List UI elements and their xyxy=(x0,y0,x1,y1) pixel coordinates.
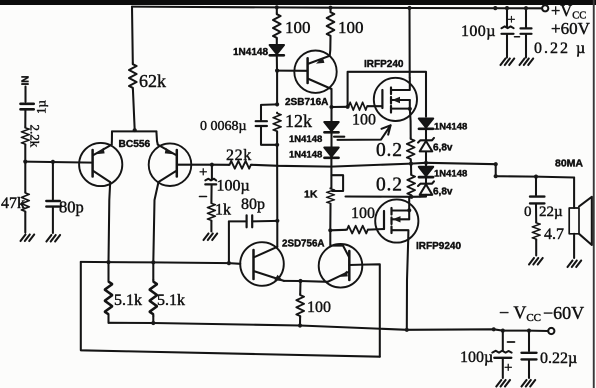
wire base rail (feedback to drivers) xyxy=(81,262,241,264)
capacitor C6 100u (top right) xyxy=(502,26,514,28)
node gate tap upper xyxy=(329,105,333,109)
svg-text:0.22 µ: 0.22 µ xyxy=(534,40,587,57)
diode D5 1N4148 (clamp bottom) xyxy=(419,167,433,177)
node feedback xyxy=(210,163,214,167)
svg-text:100: 100 xyxy=(351,205,375,222)
node xyxy=(409,195,413,199)
svg-text:12k: 12k xyxy=(285,111,312,131)
wire gate lead left xyxy=(330,229,346,232)
capacitor C10 0.22u (bottom) xyxy=(522,353,537,360)
svg-text:5.1k: 5.1k xyxy=(114,292,142,309)
transistor Q5 (driver) xyxy=(319,244,363,288)
wire to gate resistor xyxy=(332,106,348,108)
ground xyxy=(529,258,543,265)
resistor R 100 (left) xyxy=(273,13,281,39)
capacitor C4 0.0068u xyxy=(256,121,267,126)
trimmer box xyxy=(331,175,343,191)
wire 0.22u lead xyxy=(528,331,530,351)
node on rail xyxy=(493,6,497,10)
wire xyxy=(410,165,412,174)
wire xyxy=(506,35,508,58)
wire gate clamp riser xyxy=(348,72,426,117)
node rail R100#1 xyxy=(275,5,279,9)
wire xyxy=(276,71,278,105)
svg-text:62k: 62k xyxy=(139,71,166,91)
svg-text:100: 100 xyxy=(338,18,364,37)
node xyxy=(527,329,531,333)
node output rail clamp xyxy=(424,161,428,165)
wire +Vcc top rail xyxy=(132,7,542,9)
svg-text:100µ: 100µ xyxy=(460,349,493,366)
svg-text:1N4148: 1N4148 xyxy=(289,134,322,145)
node base 2SB716A xyxy=(275,69,279,73)
node xyxy=(106,260,110,264)
ground xyxy=(46,235,60,242)
diode D1 1N4148 xyxy=(270,45,284,55)
capacitor C9 100u (bottom) xyxy=(492,351,511,353)
wire 100u top lead xyxy=(506,8,508,26)
wire base xyxy=(277,70,308,72)
wire xyxy=(299,281,301,294)
svg-text:1N4148: 1N4148 xyxy=(434,122,467,133)
node xyxy=(492,327,496,331)
wire 100u lead xyxy=(502,331,504,351)
resistor R gate 100 (bottom) xyxy=(346,226,369,234)
capacitor C3 100u (feedback) xyxy=(205,179,216,181)
node xyxy=(275,143,279,147)
node xyxy=(151,321,155,325)
wire xyxy=(425,178,427,183)
wire xyxy=(329,8,331,11)
label minus xyxy=(515,36,520,38)
wire Q5 base drop xyxy=(363,264,380,356)
node xyxy=(505,6,509,10)
node jog xyxy=(494,174,498,178)
svg-text:100µ: 100µ xyxy=(461,23,496,40)
capacitor C2 80p (input) xyxy=(46,201,60,207)
wire xyxy=(276,7,278,13)
wire Q1 collector drop xyxy=(109,182,111,262)
label minus xyxy=(200,196,207,198)
svg-text:2SD756A: 2SD756A xyxy=(282,239,324,250)
node xyxy=(227,261,231,265)
wire xyxy=(107,262,109,323)
wire xyxy=(329,204,331,230)
svg-text:1K: 1K xyxy=(304,189,318,201)
resistor R 100 (right) xyxy=(327,11,335,37)
wire base Q1 xyxy=(25,162,92,163)
stub xyxy=(334,136,344,138)
svg-text:80p: 80p xyxy=(59,198,84,217)
svg-text:0: 0 xyxy=(524,204,532,220)
svg-text:0 0068µ: 0 0068µ xyxy=(200,119,247,134)
resistor 1k xyxy=(208,203,216,222)
wire zobel lead xyxy=(535,177,537,195)
ground xyxy=(496,380,510,387)
wire -Vcc rail xyxy=(300,326,548,332)
svg-text:6,8v: 6,8v xyxy=(433,187,453,198)
node xyxy=(494,162,498,166)
wire VAS column xyxy=(276,145,278,247)
svg-text:+: + xyxy=(504,360,512,376)
capacitor C7 0.22u (top right) xyxy=(521,28,532,33)
wire xyxy=(573,234,575,258)
svg-text:+: + xyxy=(508,13,516,28)
wire 0.0068u top lead xyxy=(261,104,277,119)
wire gate lead xyxy=(369,228,384,231)
wire xyxy=(425,129,427,141)
svg-text:0.2: 0.2 xyxy=(376,140,403,161)
svg-text:100: 100 xyxy=(307,299,331,316)
wire 0.22u top lead xyxy=(525,8,527,27)
node input xyxy=(23,160,27,164)
node xyxy=(275,102,279,106)
mosfet U2 IRFP9240 xyxy=(375,197,418,243)
resistor 47k xyxy=(22,192,30,212)
svg-text:1N4148: 1N4148 xyxy=(233,47,268,58)
node xyxy=(524,6,528,10)
wire Q2 emitter lead xyxy=(156,131,157,144)
svg-text:2SB716A: 2SB716A xyxy=(285,97,328,108)
wire xyxy=(425,163,427,167)
resistor 22k xyxy=(229,161,252,169)
node rail R100#2 xyxy=(328,6,332,10)
ground xyxy=(501,59,515,66)
wire xyxy=(528,361,530,379)
node xyxy=(407,6,411,10)
svg-text:1k: 1k xyxy=(215,202,231,219)
wire xyxy=(52,208,54,233)
wire xyxy=(502,359,504,378)
wire xyxy=(24,145,26,162)
resistor R gate 100 (top) xyxy=(348,102,368,110)
svg-text:4.7: 4.7 xyxy=(544,226,564,243)
ground xyxy=(568,261,582,268)
label minus xyxy=(508,341,515,343)
scan right edge xyxy=(593,0,595,388)
svg-text:47k: 47k xyxy=(1,195,25,212)
ground xyxy=(520,59,534,66)
wire xyxy=(210,185,212,202)
zener Z1 6,8v xyxy=(418,138,434,152)
wire speaker lead xyxy=(573,178,575,209)
wire 80p input tap xyxy=(52,162,54,200)
wire gate lead xyxy=(368,105,382,107)
wire source node horizontal xyxy=(346,195,421,197)
svg-text:−60V: −60V xyxy=(543,303,584,323)
wire xyxy=(276,39,278,45)
svg-text:100µ: 100µ xyxy=(217,178,250,195)
resistor 4.7 xyxy=(532,222,540,240)
wire IRFP9240 drain xyxy=(407,240,408,330)
wire bias chain top xyxy=(330,89,332,122)
svg-text:1N4148: 1N4148 xyxy=(434,169,467,180)
wire xyxy=(535,240,537,256)
transistor Q3 2SB716A xyxy=(294,50,336,92)
scan top bar xyxy=(0,0,596,5)
svg-text:80p: 80p xyxy=(241,196,265,213)
wire to Q5 collector xyxy=(330,230,349,257)
svg-text:6,8v: 6,8v xyxy=(433,143,453,154)
wire xyxy=(425,152,427,163)
node zobel tap xyxy=(534,175,538,179)
node output upper xyxy=(409,162,413,166)
svg-text:BC556: BC556 xyxy=(119,139,151,150)
annotation arrow xyxy=(338,125,391,140)
capacitor C8 0.22u (zobel) xyxy=(530,197,544,204)
transistor Q2 BC556 (right) xyxy=(149,143,192,186)
node gate tap lower xyxy=(328,228,332,232)
svg-text:100: 100 xyxy=(352,112,376,129)
resistor R 0.2 (upper) xyxy=(407,138,415,160)
resistor 2.2k xyxy=(22,127,30,145)
node xyxy=(298,323,302,327)
wire 100u lead xyxy=(211,165,213,179)
transistor Q4 2SD756A xyxy=(240,242,284,286)
svg-text:IN: IN xyxy=(21,76,32,86)
wire Q2 collector drop xyxy=(153,182,158,262)
wire zener to source node xyxy=(420,195,426,197)
wire Q1 emitter lead xyxy=(111,131,113,144)
wire feedback loop xyxy=(81,262,380,357)
node xyxy=(346,105,350,109)
ground xyxy=(522,380,536,387)
resistor 100 (emitter) xyxy=(296,294,304,317)
wire Q2 base to feedback node xyxy=(177,164,212,166)
wire 5.1k bottom rail xyxy=(109,323,301,326)
wire 47k top lead xyxy=(24,162,26,192)
wire output rail right xyxy=(426,163,574,178)
resistor 12k xyxy=(273,112,281,132)
diode D4 1N4148 (clamp top) xyxy=(419,119,433,129)
wire bias chain to 1K xyxy=(330,158,332,189)
svg-text:IRFP9240: IRFP9240 xyxy=(416,241,461,252)
svg-text:1µ: 1µ xyxy=(34,100,49,115)
wire xyxy=(210,221,212,231)
wire xyxy=(330,132,332,148)
wire xyxy=(152,262,154,323)
resistor 5.1k (right) xyxy=(150,280,158,316)
wire 62k top lead xyxy=(131,7,134,63)
node 80p tap xyxy=(275,219,279,223)
svg-text:+: + xyxy=(199,165,207,181)
diode D3 1N4148 (bias) xyxy=(324,148,338,158)
wire 62k bottom lead xyxy=(133,89,135,130)
capacitor C1 1u (input) xyxy=(21,104,34,110)
svg-text:0.22µ: 0.22µ xyxy=(540,350,577,367)
svg-text:− VCC: − VCC xyxy=(499,303,541,325)
speaker LS1 xyxy=(569,197,592,245)
wire xyxy=(525,35,527,58)
wire xyxy=(24,212,26,232)
svg-text:22µ: 22µ xyxy=(539,204,563,220)
svg-text:0.2: 0.2 xyxy=(376,175,403,196)
svg-text:2.2k: 2.2k xyxy=(28,125,43,148)
node xyxy=(298,279,302,283)
node 80p tap xyxy=(51,160,55,164)
wire xyxy=(276,132,278,145)
transistor Q1 BC556 (left) xyxy=(79,143,122,186)
svg-text:5.1k: 5.1k xyxy=(157,292,185,309)
wire input lead xyxy=(24,87,26,102)
ground xyxy=(204,234,218,241)
svg-text:100: 100 xyxy=(285,18,311,37)
terminal -Vcc xyxy=(548,328,554,334)
wire xyxy=(276,56,278,71)
wire xyxy=(24,111,26,127)
wire xyxy=(535,205,537,222)
wire 0.0068u bottom lead xyxy=(261,127,277,145)
svg-text:80MA: 80MA xyxy=(555,158,583,170)
wire emitter 2SB716A xyxy=(329,37,332,56)
svg-text:IRFP240: IRFP240 xyxy=(364,59,404,70)
wire xyxy=(410,160,412,164)
wire BC556 emitter rail xyxy=(112,130,156,132)
resistor 5.1k (left) xyxy=(105,280,113,316)
wire xyxy=(410,195,412,198)
zener Z2 6,8v xyxy=(418,181,434,195)
wire feedback rail to 22k xyxy=(212,164,229,166)
resistor R 0.2 (lower) xyxy=(407,174,415,196)
capacitor C5 80p (lag) xyxy=(229,215,277,263)
mosfet U1 IRFP240 xyxy=(374,78,417,138)
ground xyxy=(21,235,35,242)
node xyxy=(501,329,505,333)
diode D2 1N4148 (bias) xyxy=(324,122,338,132)
resistor 62k xyxy=(129,63,137,89)
terminal +Vcc xyxy=(542,5,548,11)
node emitters junction xyxy=(133,128,137,132)
node xyxy=(405,328,409,332)
wire xyxy=(299,317,301,325)
svg-text:+60V: +60V xyxy=(551,19,591,38)
wire emitter junction xyxy=(284,280,328,283)
wire 22k to output node xyxy=(252,163,426,167)
resistor 1K xyxy=(327,188,335,204)
svg-text:1N4148: 1N4148 xyxy=(289,150,322,161)
wire IRFP240 drain xyxy=(408,8,410,78)
node xyxy=(151,260,155,264)
